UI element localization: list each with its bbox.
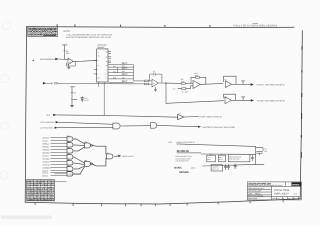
resistor ladder rows xyxy=(109,65,145,83)
svg-text:MODE VALID: MODE VALID xyxy=(122,155,134,158)
arrow output ch1 xyxy=(251,83,254,85)
svg-text:28 VDC: 28 VDC xyxy=(174,167,182,170)
gate input wires xyxy=(51,137,68,139)
left zone tick A xyxy=(32,60,34,61)
bottom zone tick 7 xyxy=(169,204,171,206)
op-amp AR4 feedback box xyxy=(224,76,237,84)
top zone tick 5 xyxy=(209,25,211,28)
op-amp AR5 feedback box xyxy=(224,94,236,100)
lower input long wire xyxy=(57,82,144,85)
G10 output wire xyxy=(120,125,150,127)
punch hole 3 xyxy=(1,122,9,130)
branch tap wire xyxy=(73,98,76,100)
gate designator labels xyxy=(67,135,109,173)
resistor R15 row xyxy=(109,78,134,80)
resistor R10 row xyxy=(109,64,134,66)
gate G3 xyxy=(67,149,73,153)
capacitor C2 xyxy=(154,73,156,76)
wire lower channel run xyxy=(166,101,224,104)
wire R6 to AR2 xyxy=(149,80,153,82)
U1 left pin 3 xyxy=(94,73,97,75)
bottom zone tick 3 xyxy=(101,204,103,206)
capacitor C11 xyxy=(257,152,263,155)
wire TP3 run xyxy=(57,115,178,117)
punch hole 1 xyxy=(3,22,11,30)
svg-text:REGULATED SUPPLY: REGULATED SUPPLY xyxy=(177,141,196,144)
right zone tick E xyxy=(300,135,302,138)
page bottom smudge xyxy=(1,216,52,219)
G7 out diagonal xyxy=(74,167,85,174)
capacitor C12 xyxy=(224,164,226,170)
punch hole 2 xyxy=(1,75,9,83)
ladder inner vertical xyxy=(117,67,119,73)
capacitor C13 xyxy=(227,164,229,170)
arrow gate cluster output xyxy=(118,155,121,157)
node split vertical xyxy=(165,83,167,103)
ladder resistor bodies xyxy=(122,62,126,83)
border left xyxy=(25,27,26,203)
wire R9 to AR3 xyxy=(186,86,193,89)
resistor R13 row xyxy=(109,72,134,74)
wire input to +15 rail junction xyxy=(63,45,65,59)
svg-text:+15: +15 xyxy=(172,88,175,91)
gate G7 xyxy=(67,172,73,176)
bottom zone tick 6 xyxy=(154,204,156,206)
bottom zone tick 10 xyxy=(249,201,251,203)
top border drawing number xyxy=(234,24,278,28)
gate G2 xyxy=(67,143,73,147)
gate GF final xyxy=(107,154,113,159)
resistor R16 row xyxy=(109,81,134,83)
svg-text:DWG: DWG xyxy=(272,198,275,200)
bottom zone tick 2 xyxy=(72,204,74,206)
svg-text:UNLESS OTHERWISE SPECIFIED MIL: UNLESS OTHERWISE SPECIFIED MIL-R-105 xyxy=(66,36,112,39)
svg-text:TO AP 1 (SEE FIG NO-4): TO AP 1 (SEE FIG NO-4) xyxy=(199,116,222,119)
op-amp AR4 xyxy=(226,81,232,88)
svg-text:VR1: VR1 xyxy=(84,97,87,100)
AR3 feedback top wire xyxy=(191,76,206,78)
svg-text:1. ALL RESISTORS ARE 1/4 W 1%: 1. ALL RESISTORS ARE 1/4 W 1% CARB FILM xyxy=(66,33,113,36)
G8b out wire xyxy=(92,158,106,166)
junction dot zener branch xyxy=(71,99,72,100)
right zone tick B xyxy=(301,70,303,73)
AR5 output wire xyxy=(232,99,251,101)
node split junction xyxy=(165,83,166,84)
title block logo xyxy=(292,182,302,186)
module box PS2 xyxy=(211,165,223,171)
right zone tick C xyxy=(301,93,303,97)
case symbol T1 xyxy=(241,81,244,85)
svg-text:DRN J.MELVIN 4-6-72: DRN J.MELVIN 4-6-72 xyxy=(248,187,264,190)
arrow rate sensor xyxy=(55,58,58,60)
resistor R9 body xyxy=(182,88,186,90)
spare row line xyxy=(54,173,67,175)
zener VR1 symbol xyxy=(81,96,84,102)
wire R8 to AR3 xyxy=(185,82,193,84)
G5 out diagonal xyxy=(74,163,85,165)
svg-text:RATE SENSOR INPUT: RATE SENSOR INPUT xyxy=(40,58,57,61)
wire alt hold to gate G10 xyxy=(58,126,113,128)
node RATE SENSOR wire xyxy=(59,58,69,61)
capacitor C14 xyxy=(234,164,237,169)
AR2 feedback left vertical xyxy=(149,74,151,81)
U1 bottom pin b / wire to TP3 node xyxy=(103,82,105,115)
svg-text:SC: SC xyxy=(278,198,280,200)
AR2 feedback right vertical xyxy=(161,74,163,83)
svg-text:5 SPARE GATES: 5 SPARE GATES xyxy=(69,173,83,176)
gate G6 xyxy=(67,167,73,171)
resistor R1 lead mark xyxy=(64,50,65,52)
svg-text:30-4: 30-4 xyxy=(294,193,297,196)
G4 out diagonal xyxy=(74,157,85,163)
svg-text:MATL — FINISH —: MATL — FINISH — xyxy=(248,193,262,196)
svg-text:C11: C11 xyxy=(264,148,267,151)
bottom zone tick 8 xyxy=(186,203,188,205)
revision stamp block xyxy=(28,27,58,37)
wire R7 to AR2 xyxy=(149,83,153,85)
U1 left pin 1 xyxy=(94,59,97,61)
op-amp AR5 xyxy=(225,97,232,104)
ground zener branch xyxy=(71,105,74,107)
arrow pitch trim xyxy=(56,121,59,123)
signal table bottom left xyxy=(27,180,67,202)
module box PS1 xyxy=(228,154,250,162)
filter box FL1 xyxy=(218,155,225,162)
ladder bus vertical xyxy=(133,65,135,81)
AR3 output wire xyxy=(200,83,223,84)
svg-text:AUTOPILOT ENG (ALT HOLD ENG): AUTOPILOT ENG (ALT HOLD ENG) xyxy=(202,126,235,129)
gate G4 xyxy=(67,155,73,159)
svg-text:TOLERANCES ON FRAC DEC ANG: TOLERANCES ON FRAC DEC ANG xyxy=(248,184,274,187)
TITLE BLOCK xyxy=(247,182,301,200)
svg-text:52: 52 xyxy=(288,198,290,200)
AR2 output wire to node split xyxy=(158,82,166,84)
gate G8a level2 xyxy=(85,143,91,148)
ground under AR1 xyxy=(67,65,70,69)
ladder exit wire xyxy=(134,80,145,82)
AR3 feedback right vertical xyxy=(205,77,207,84)
+5 rail vertical xyxy=(255,146,257,164)
svg-text:AND MASTER SW: AND MASTER SW xyxy=(175,159,189,162)
+15V rail bar R1 top xyxy=(63,44,67,46)
wire pitch trim to gate G10 xyxy=(59,122,113,124)
arrow alt hold xyxy=(55,127,58,129)
tap to filter xyxy=(221,154,223,155)
svg-text:TO NO 2 UNIT (SEE FIG NO-2): TO NO 2 UNIT (SEE FIG NO-2) xyxy=(257,99,285,102)
wire +15 to R9 xyxy=(178,88,182,90)
svg-text:FULL | SC-D-52051-GØ1 | B52051: FULL | SC-D-52051-GØ1 | B52051 xyxy=(234,24,278,27)
border top xyxy=(27,27,294,28)
gate G9 input bar xyxy=(177,114,179,119)
svg-text:SH: SH xyxy=(294,198,296,200)
G8a out wire xyxy=(92,145,106,154)
lower input lead mark xyxy=(46,82,51,84)
bottom zone tick 1 xyxy=(34,203,36,206)
svg-text:+5V: +5V xyxy=(168,141,172,144)
right zone tick F xyxy=(300,152,302,158)
svg-text:W4ØZRΩHM8KQÖBX2V1MØK: W4ØZRΩHM8KQÖBX2V1MØK xyxy=(28,32,57,36)
svg-text:R9: R9 xyxy=(181,91,183,94)
border right xyxy=(300,31,302,199)
GF output wire xyxy=(114,155,118,158)
U1 inner pin numbers xyxy=(97,51,107,81)
resistor R6 body xyxy=(145,80,149,82)
arrow TP3 xyxy=(53,114,56,116)
underline 28VDC xyxy=(177,152,201,154)
G3 out diagonal xyxy=(74,147,85,151)
wire 28V return xyxy=(203,165,247,166)
gate G1 xyxy=(67,137,73,141)
right zone tick D xyxy=(301,113,303,119)
G8b bubble xyxy=(91,163,93,165)
svg-text:R4: R4 xyxy=(74,91,76,94)
resistor R14 row xyxy=(109,75,134,77)
bottom zone tick 4 xyxy=(125,204,127,206)
return bottom wire xyxy=(246,163,264,165)
top zone tick 1 xyxy=(56,24,58,27)
svg-text:C2: C2 xyxy=(153,70,155,73)
wire +5V rail xyxy=(177,144,256,147)
wire 28V main xyxy=(201,153,256,155)
svg-text:NOTE:: NOTE: xyxy=(63,30,70,33)
G1 out diagonal xyxy=(74,139,85,144)
junction dot lower input xyxy=(51,83,52,84)
gate G10 AND xyxy=(113,123,120,129)
G9 output wire xyxy=(184,116,198,118)
capacitor C10 xyxy=(251,155,254,160)
zener branch vertical xyxy=(71,87,73,106)
gate G9 buffer xyxy=(178,114,184,119)
AR4 output wire xyxy=(232,83,251,85)
svg-text:D: D xyxy=(283,198,284,200)
AR3 feedback left vertical xyxy=(190,77,192,83)
connector mark xyxy=(55,82,57,84)
ground under AR2 xyxy=(154,87,157,91)
bottom zone tick 9 xyxy=(217,202,219,204)
bottom zone tick 11 xyxy=(282,200,284,202)
resistor R7 body xyxy=(145,83,149,85)
case symbol T2 xyxy=(241,97,244,100)
arrow output ch2 xyxy=(251,99,254,101)
resistor R4 lead mark xyxy=(71,91,73,93)
svg-text:CHK R.HALL APP: CHK R.HALL APP xyxy=(248,190,262,193)
svg-text:PITCH TRIM CMD: PITCH TRIM CMD xyxy=(40,121,55,124)
bottom zone tick 5 xyxy=(140,204,142,206)
AR2 feedback top wire xyxy=(150,73,162,75)
gate G5 xyxy=(67,161,73,165)
op-amp AR2 integrator xyxy=(152,79,158,87)
U1 bottom pin a xyxy=(97,82,99,87)
top zone tick 2 xyxy=(74,24,76,27)
+15V rail bar zener branch xyxy=(71,86,75,88)
op-amp AR1 feedback loop xyxy=(66,61,75,66)
punch hole 4 xyxy=(0,171,8,179)
G6 out diagonal xyxy=(74,166,85,169)
svg-text:Q2M8ZKVØXW1HB4ÖKZ6V: Q2M8ZKVØXW1HB4ÖKZ6V xyxy=(27,199,55,202)
regulator box VR2 xyxy=(207,155,216,162)
ladder value labels xyxy=(113,62,129,83)
gate G11 AND xyxy=(150,123,156,129)
resistor R11 row xyxy=(109,66,134,68)
op-amp AR1 output wire xyxy=(73,60,97,61)
G11 output wire xyxy=(158,125,199,126)
wire AR2 out to R8 xyxy=(166,82,181,84)
G8a bubble xyxy=(91,145,93,147)
svg-text:ALT HOLD ENG: ALT HOLD ENG xyxy=(40,127,53,130)
op-amp AR1 xyxy=(68,58,73,64)
arrow lower input xyxy=(43,82,46,84)
svg-text:TO NO 1 UNIT (SEE FIG NO-1): TO NO 1 UNIT (SEE FIG NO-1) xyxy=(256,84,284,87)
top zone tick 3 xyxy=(119,25,121,28)
top zone tick 4 xyxy=(164,25,166,28)
op-amp AR3 xyxy=(193,81,200,89)
+5 top branch wire xyxy=(256,148,263,151)
resistor R12 row xyxy=(109,69,134,71)
right zone tick A xyxy=(301,46,303,50)
svg-text:AMPL ASSY: AMPL ASSY xyxy=(274,192,289,195)
tap to regulator xyxy=(210,154,212,155)
svg-text:BENDIX: BENDIX xyxy=(292,183,300,186)
svg-text:RETURN: RETURN xyxy=(179,171,189,174)
gate G8b level2 xyxy=(85,161,91,166)
border bottom xyxy=(25,199,300,204)
svg-text:12B DAC: 12B DAC xyxy=(97,46,105,49)
resistor R8 body xyxy=(181,83,185,85)
arrow autopilot engage xyxy=(198,126,201,128)
U1 right pin stubs xyxy=(108,51,111,53)
U1 left pin 2 xyxy=(94,69,97,71)
IC U1 body xyxy=(97,49,108,82)
G2 out diagonal xyxy=(74,144,85,147)
resistor R12f body xyxy=(196,77,200,79)
